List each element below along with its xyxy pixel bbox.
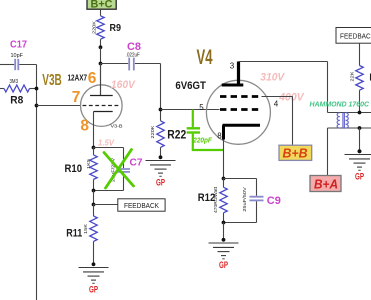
svg-text:FEEDBACK: FEEDBACK — [124, 201, 159, 210]
svg-text:.022uF: .022uF — [126, 53, 141, 59]
node transformer bottom — [358, 126, 362, 130]
svg-text:400V: 400V — [278, 91, 305, 103]
power label B+A — [310, 176, 341, 192]
svg-text:6: 6 — [88, 70, 97, 87]
voltage 310V — [260, 71, 286, 83]
pin 3 V4 — [230, 61, 235, 70]
svg-text:R12: R12 — [198, 192, 216, 204]
svg-text:7: 7 — [72, 89, 81, 106]
net label FEEDBACK (right) — [336, 28, 371, 44]
svg-text:C17: C17 — [10, 38, 27, 50]
svg-text:HAMMOND 1760C: HAMMOND 1760C — [310, 100, 370, 109]
pin 8 V4 — [217, 131, 222, 140]
svg-text:C7: C7 — [130, 156, 143, 168]
svg-text:10pF: 10pF — [11, 53, 24, 59]
svg-text:B+A: B+A — [314, 177, 338, 191]
voltage 400V — [278, 91, 305, 103]
svg-text:6V6GT: 6V6GT — [175, 80, 206, 92]
svg-text:FEEDBACK: FEEDBACK — [340, 32, 371, 41]
resistor R11 — [66, 205, 97, 265]
node grid junction — [35, 104, 39, 108]
label C9 — [267, 195, 281, 207]
ground below transformer — [345, 149, 371, 170]
capacitor 220pF (grid-cathode, added) — [187, 110, 224, 151]
wire V4 plate to transformer — [239, 62, 328, 113]
deleted-mark X over C7 — [104, 150, 134, 189]
svg-text:B+B: B+B — [283, 147, 308, 161]
label GP (R12 ground) — [219, 260, 228, 271]
resistor R8 — [0, 79, 37, 107]
capacitor C8 — [101, 41, 161, 71]
svg-text:3M3: 3M3 — [10, 79, 19, 85]
tube V3B (12AX7) — [81, 64, 123, 148]
label HAMMOND 1760C — [310, 100, 370, 109]
svg-text:160V: 160V — [111, 79, 137, 91]
node cathode R12 — [222, 177, 226, 181]
ground below R12 — [209, 238, 239, 259]
wire to FEEDBACK box — [94, 204, 118, 206]
label GP (transformer ground) — [355, 171, 364, 182]
svg-text:R22: R22 — [167, 130, 186, 142]
wire V4 screen to B+B — [262, 97, 293, 146]
pin 4 V4 — [274, 100, 279, 109]
wire grid to V4 pin5 — [161, 109, 220, 111]
label 6V6GT — [175, 80, 206, 92]
transformer T (output) — [328, 113, 371, 129]
wire transformer to ground — [359, 128, 361, 151]
node V3B cathode — [92, 146, 96, 150]
wire C8 down to V4 grid — [160, 64, 162, 110]
pin 7 V3B — [72, 89, 81, 106]
node R8-C17 junction — [35, 87, 39, 91]
svg-text:V3B: V3B — [42, 72, 62, 89]
wire V4 cathode down — [223, 140, 225, 179]
svg-text:C8: C8 — [127, 41, 141, 53]
svg-text:B+C: B+C — [91, 0, 113, 11]
node above ground — [358, 149, 362, 153]
wire primary to B+A — [327, 128, 329, 176]
net label FEEDBACK (left) — [118, 199, 165, 211]
label V3B — [42, 72, 62, 89]
svg-text:15K: 15K — [83, 223, 89, 234]
power label B+B — [279, 145, 312, 160]
wire to ground — [223, 223, 225, 240]
svg-text:V4: V4 — [197, 45, 213, 69]
node R12 bottom — [222, 221, 226, 225]
ground below R22 — [146, 155, 176, 176]
svg-text:12AX7: 12AX7 — [68, 72, 88, 82]
power label B+C — [87, 0, 116, 11]
svg-text:4: 4 — [274, 100, 279, 109]
wire R9 to plate — [100, 47, 102, 63]
voltage 160V — [111, 79, 137, 91]
svg-text:GP: GP — [219, 260, 228, 271]
voltage 1.5V — [98, 138, 115, 147]
tube V4 (6V6GT) — [206, 62, 270, 145]
resistor R9 — [92, 9, 121, 47]
capacitor C7 (bypassed) — [94, 148, 131, 191]
svg-text:220K: 220K — [150, 125, 156, 139]
svg-text:R9: R9 — [110, 22, 122, 34]
svg-text:GP: GP — [355, 171, 364, 182]
node plate-C8 junction — [99, 62, 103, 66]
resistor R12 — [198, 179, 227, 223]
label V4 — [197, 45, 213, 69]
capacitor C9 — [224, 179, 264, 223]
node R10 bottom — [92, 189, 96, 193]
svg-text:220pF: 220pF — [192, 137, 212, 144]
ground below R11 — [79, 262, 109, 283]
svg-text:22K: 22K — [350, 71, 356, 82]
svg-text:GP: GP — [89, 284, 98, 295]
svg-text:R11: R11 — [66, 228, 82, 240]
resistor R10 — [65, 148, 98, 191]
svg-text:R8: R8 — [10, 95, 23, 107]
svg-text:310V: 310V — [260, 71, 286, 83]
pin 5 V4 — [199, 103, 204, 112]
svg-text:GP: GP — [156, 177, 165, 188]
pin 6 V3B — [88, 70, 97, 87]
svg-text:C9: C9 — [267, 195, 281, 207]
wire cathode to C7 — [94, 147, 124, 149]
svg-text:8: 8 — [80, 118, 89, 135]
svg-text:R10: R10 — [65, 163, 83, 175]
svg-text:1.5V: 1.5V — [98, 138, 115, 147]
wire to feedback node — [93, 191, 95, 205]
svg-text:1K5: 1K5 — [86, 159, 92, 169]
label 12AX7 — [68, 72, 88, 82]
resistor R24 — [350, 66, 371, 113]
wire V3B grid — [37, 105, 82, 107]
svg-text:25uF/50V: 25uF/50V — [242, 186, 247, 212]
svg-text:3: 3 — [230, 61, 235, 70]
node V4 grid junction — [159, 108, 163, 112]
svg-text:220K: 220K — [92, 20, 98, 34]
wire feedback to R24 — [359, 43, 361, 65]
resistor R22 — [150, 110, 186, 158]
node transformer top — [358, 111, 362, 115]
node below R9 — [99, 45, 103, 49]
capacitor C17 — [0, 38, 37, 70]
svg-text:8: 8 — [217, 131, 222, 140]
label C7 — [130, 156, 143, 168]
node feedback tap — [92, 203, 96, 207]
pin 8 V3B — [80, 118, 89, 135]
svg-text:5: 5 — [199, 103, 204, 112]
wire feedback bus vertical — [36, 65, 38, 300]
label GP (R11 ground) — [89, 284, 98, 295]
label GP (R22 ground) — [156, 177, 165, 188]
svg-text:V3-B: V3-B — [111, 124, 123, 129]
